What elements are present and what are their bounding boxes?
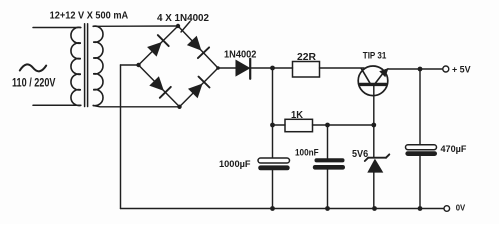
wire secondary top to bridge top vertex [93,25,178,27]
junction dot ground rail C1 [270,206,275,211]
bridge arm wire bottom-right [180,68,219,107]
bridge diode D1 (upper-left arm) [147,35,169,57]
wire bias rail (junction to 1K) [273,124,286,126]
bridge diode D4 (lower-right arm) [188,77,210,99]
svg-text:TIP 31: TIP 31 [363,50,387,60]
transformer T1 primary bottom lead wire [33,104,81,106]
svg-text:12+12 V X 500 mA: 12+12 V X 500 mA [50,11,129,22]
emitter lead with arrow [376,70,386,83]
capacitor C2 100nF [313,158,345,169]
wire left vertical drop to bottom rail [120,65,122,209]
resistor 1K [285,119,313,131]
junction dot ground rail C2 [325,206,330,211]
wire 100nF to ground rail [327,170,329,209]
bridge diode D3 (lower-left arm) [149,76,171,98]
bridge arm wire top-left [139,26,179,65]
svg-text:0V: 0V [456,204,466,213]
base wire down [373,86,375,125]
wire emitter to +5V terminal [388,68,443,70]
bridge arm wire bottom-left [139,65,180,107]
transformer T1 core [84,24,86,107]
junction dot bias left [270,123,275,128]
junction dot bridge bottom vertex [177,105,181,109]
diode D5 1N4002 [236,59,250,79]
junction dot bridge right vertex [216,66,220,70]
wire 1K to zener node [313,124,374,126]
zener diode ZD1 5V6 [365,125,390,209]
resistor 22R [293,62,320,78]
transformer T1 primary top lead wire [33,27,81,29]
svg-text:100nF: 100nF [295,147,319,158]
terminal +5V [443,66,449,72]
svg-text:1000µF: 1000µF [219,159,251,169]
bridge arm wire top-right [178,26,218,68]
transformer T1 primary winding [71,27,81,105]
svg-text:470µF: 470µF [441,144,467,154]
wire bottom rail [121,208,444,210]
svg-text:5V6: 5V6 [352,149,368,160]
transistor Q1 TIP31 [358,66,388,125]
base bar [360,83,386,86]
wire 22R to transistor collector [320,67,365,69]
leader line from label to bridge [181,22,190,33]
capacitor C3 470uF (electrolytic) [405,145,437,156]
capacitor C1 1000uF (electrolytic) [258,158,290,170]
wire bridge right vertex to diode D5 [218,67,236,69]
terminal 0V [444,206,450,212]
AC source sine symbol [20,64,46,71]
wire 100nF node down [327,125,329,158]
junction dot bias middle (100nF) [325,123,330,128]
wire unregulated node down to 1000uF [272,68,274,158]
wire bridge left vertex to left drop [121,64,139,66]
bridge diode D2 (upper-right arm) [187,36,209,58]
svg-text:110 / 220V: 110 / 220V [12,76,56,89]
wire 470uF to ground rail [419,156,421,209]
junction node unregulated DC [270,66,275,71]
junction dot bias right (base/zener) [371,123,376,128]
junction dot ground rail zener [372,206,377,211]
wire +5V node down to 470uF [419,69,421,145]
collector lead [361,68,370,83]
wire secondary bottom to bridge bottom vertex [93,106,179,107]
junction dot +5V rail [418,67,423,72]
junction dot bridge top vertex [176,24,180,28]
svg-text:+ 5V: + 5V [452,64,471,74]
junction dot ground rail C3 [418,206,423,211]
wire 1000uF to ground rail [272,170,274,208]
svg-text:1N4002: 1N4002 [224,49,257,60]
transformer T1 secondary winding [93,26,103,106]
svg-text:4 X 1N4002: 4 X 1N4002 [157,13,210,24]
junction dot bridge left vertex [136,63,140,67]
wire diode D5 to resistor 22R [251,67,293,69]
